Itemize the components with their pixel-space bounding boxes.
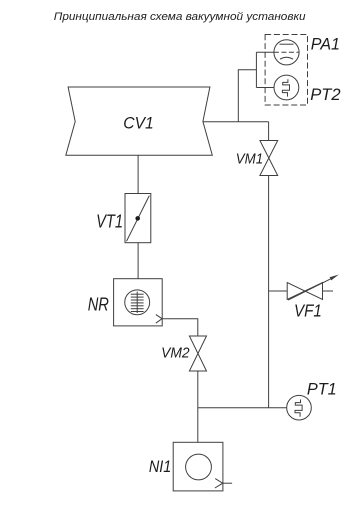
gauge enclosure dashed box xyxy=(265,35,307,106)
thermocouple gauge PT2 xyxy=(274,75,299,100)
wire stub to PT2 xyxy=(256,87,274,89)
svg-text:NR: NR xyxy=(88,294,109,314)
svg-text:Принципиальная схема вакуумной: Принципиальная схема вакуумной установки xyxy=(54,11,306,23)
leak valve VF1 xyxy=(287,275,339,301)
svg-text:VF1: VF1 xyxy=(294,300,322,320)
pump NI1 xyxy=(173,442,223,491)
wire VM1 outlet down to bottom junction xyxy=(268,176,270,408)
svg-text:VM1: VM1 xyxy=(236,150,263,167)
arrow NR exhaust xyxy=(156,315,162,324)
svg-text:VM2: VM2 xyxy=(161,345,190,362)
wire junction to PT1 xyxy=(198,407,287,409)
svg-text:PT1: PT1 xyxy=(307,379,337,398)
wire VM1 inlet xyxy=(268,122,270,141)
valve VM1 xyxy=(260,141,278,176)
svg-text:PT2: PT2 xyxy=(310,85,340,104)
wire branch up to gauge bus xyxy=(238,70,256,122)
svg-text:NI1: NI1 xyxy=(149,457,171,476)
wire chamber right apex to main right line xyxy=(203,121,269,123)
svg-text:PA1: PA1 xyxy=(311,34,340,53)
valve VT1 xyxy=(125,194,151,243)
chamber CV1 xyxy=(66,87,213,155)
arrow NI1 exhaust xyxy=(215,479,223,488)
thermocouple gauge PT1 xyxy=(287,395,312,420)
vacuum gauge PA1 xyxy=(274,40,299,65)
wire stub to PA1 xyxy=(256,51,274,53)
wire NR outlet to VM2 xyxy=(162,319,198,336)
wire VM2 outlet down xyxy=(197,371,199,408)
valve VM2 xyxy=(189,336,206,371)
wire gauge bus vertical xyxy=(255,52,257,87)
wire junction to NI1 xyxy=(197,408,199,443)
wire VF1 left stub xyxy=(269,290,288,292)
svg-text:VT1: VT1 xyxy=(96,212,123,232)
wire VF1 right stub xyxy=(323,290,334,292)
wire VT1 to NR xyxy=(137,243,139,279)
wire NI1 exhaust stub xyxy=(223,482,232,484)
wire chamber bottom to VT1 xyxy=(137,155,139,193)
pump NR xyxy=(114,279,163,326)
svg-text:CV1: CV1 xyxy=(123,113,153,132)
